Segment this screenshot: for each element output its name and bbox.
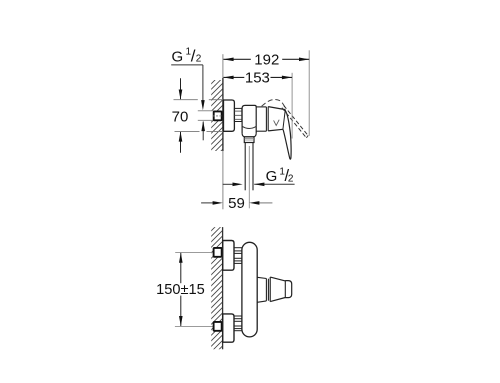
svg-text:192: 192	[254, 51, 279, 68]
svg-text:150±15: 150±15	[156, 282, 205, 298]
svg-text:2: 2	[288, 173, 294, 184]
svg-text:59: 59	[228, 195, 245, 212]
svg-text:G: G	[266, 168, 278, 185]
svg-text:G: G	[172, 49, 184, 66]
svg-text:70: 70	[172, 108, 189, 125]
svg-text:153: 153	[245, 70, 270, 87]
svg-text:2: 2	[196, 54, 202, 65]
